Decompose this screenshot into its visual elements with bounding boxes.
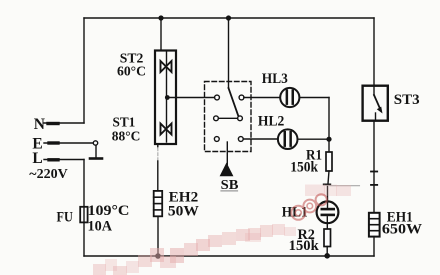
ST3 lead in bbox=[373, 86, 375, 95]
wire HL3 to right riser bbox=[299, 97, 329, 99]
wire thermostat stub to EH2 bbox=[157, 144, 159, 148]
svg-text:ST3: ST3 bbox=[394, 92, 420, 108]
svg-text:HL3: HL3 bbox=[262, 71, 288, 87]
contact row2 right bbox=[238, 116, 243, 121]
fuse FU bbox=[80, 207, 87, 223]
wire top bus into SB bbox=[228, 18, 230, 88]
connector bar left branch bbox=[324, 183, 331, 185]
node EH2 bottom bbox=[155, 253, 161, 259]
svg-text:150k: 150k bbox=[290, 159, 319, 175]
svg-text:150k: 150k bbox=[289, 238, 320, 254]
svg-text:60°C: 60°C bbox=[117, 65, 146, 80]
resistor R2 bbox=[324, 229, 331, 247]
node top bus / SB branch bbox=[226, 15, 231, 20]
wire SB row3 to HL2 bbox=[243, 138, 278, 140]
svg-text:ST1: ST1 bbox=[113, 116, 136, 131]
terminal N tick bbox=[48, 122, 58, 125]
switch SB blade bbox=[229, 88, 239, 117]
thermostat ST1/ST2 housing bbox=[155, 51, 176, 145]
thermal switch ST1 bbox=[161, 124, 172, 135]
watermark pink band bbox=[93, 185, 351, 275]
wire R1 to connector bbox=[328, 171, 329, 184]
node thermostat tap bbox=[165, 95, 170, 100]
svg-text:650W: 650W bbox=[382, 222, 423, 238]
svg-text:109°C: 109°C bbox=[88, 203, 130, 219]
wire riser HL3 to R1 bbox=[328, 98, 330, 153]
resistor R1 bbox=[326, 152, 332, 171]
wire L down to fuse bbox=[83, 160, 85, 207]
terminal N lead bbox=[44, 122, 84, 124]
wire top bus bbox=[84, 17, 374, 19]
svg-text:~220V: ~220V bbox=[29, 166, 68, 181]
thermal switch ST2 bbox=[161, 61, 172, 72]
wire bottom bus bbox=[84, 255, 374, 257]
earth terminal circle bbox=[93, 141, 97, 145]
contact row3 left bbox=[214, 137, 219, 142]
svg-text:HL2: HL2 bbox=[258, 114, 284, 130]
connector bar right upper bbox=[371, 171, 377, 173]
contact row1 right bbox=[239, 95, 244, 100]
svg-text:88°C: 88°C bbox=[112, 130, 141, 145]
wire HL1 to R2 bbox=[326, 217, 328, 229]
svg-text:10A: 10A bbox=[88, 218, 113, 234]
svg-text:50W: 50W bbox=[168, 203, 200, 219]
wire row2 bridge bbox=[218, 117, 237, 119]
connector bar right lower bbox=[371, 184, 377, 186]
contact row3 right bbox=[238, 137, 243, 142]
wire left vertical from N up to top bus bbox=[83, 18, 85, 123]
contact row2 left bbox=[214, 116, 219, 121]
wire inside thermostat bbox=[166, 52, 168, 142]
wire R2 to bottom bus bbox=[326, 247, 328, 257]
ST3 lead out bbox=[375, 113, 377, 121]
wire top bus down to ST3 bbox=[373, 18, 375, 86]
terminal L tick bbox=[49, 158, 58, 161]
svg-text:SB: SB bbox=[221, 177, 239, 192]
lamp HL3 bbox=[280, 88, 299, 107]
svg-text:L: L bbox=[32, 150, 42, 167]
wire connector to EH1 bbox=[373, 185, 375, 213]
node HL2 riser junction bbox=[326, 137, 331, 142]
heater EH2 bbox=[154, 191, 163, 216]
wire SB row1 to HL3 bbox=[244, 97, 280, 99]
wire fuse to bottom bus bbox=[83, 222, 85, 256]
lamp HL2 bbox=[278, 129, 298, 149]
svg-text:FU: FU bbox=[57, 209, 74, 225]
node top bus / thermostat branch bbox=[158, 15, 163, 20]
node R2 bottom bbox=[324, 253, 330, 259]
wire EH1 to bottom bus bbox=[373, 237, 375, 256]
terminal E tick bbox=[49, 141, 58, 144]
wire connector to HL1 bbox=[327, 187, 329, 209]
wire HL2 to right riser bbox=[298, 138, 330, 140]
SB push rod bbox=[226, 142, 228, 165]
wire thermostat tap to SB contact bbox=[167, 97, 215, 99]
heater EH1 bbox=[369, 213, 380, 237]
terminal L lead bbox=[44, 159, 84, 161]
wire faint coupling line bbox=[330, 185, 360, 187]
svg-text:N: N bbox=[34, 116, 45, 133]
SB button triangle bbox=[220, 163, 234, 177]
terminal E lead bbox=[44, 142, 93, 144]
switch ST3 housing bbox=[363, 86, 388, 121]
switch SB housing (dashed) bbox=[205, 82, 252, 152]
lamp HL1 bbox=[317, 201, 339, 223]
watermark red rings bbox=[291, 194, 327, 220]
ST3 blade with arrow bbox=[374, 95, 380, 109]
ground symbol bbox=[95, 146, 97, 159]
wire top bus to thermostat bbox=[160, 18, 162, 51]
contact row1 left bbox=[215, 95, 220, 100]
wire ST3 to connector bbox=[373, 121, 375, 171]
wire EH2 to bottom bus bbox=[157, 216, 159, 256]
